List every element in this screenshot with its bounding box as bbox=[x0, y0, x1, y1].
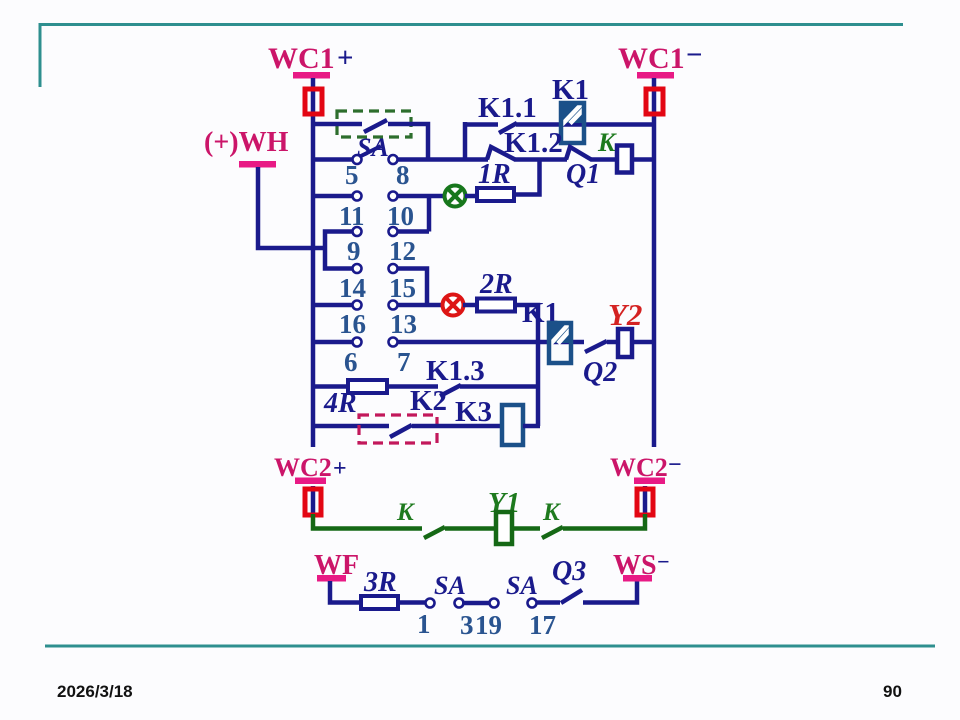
svg-text:6: 6 bbox=[344, 347, 358, 377]
svg-text:K: K bbox=[542, 499, 562, 526]
bracket joining contacts 9 and 14 bbox=[325, 232, 352, 269]
svg-text:−: − bbox=[668, 452, 682, 478]
terminal bar WF bbox=[317, 575, 346, 582]
wire K1.1 to coil K1 bbox=[516, 122, 654, 127]
wire lamp to 1R bbox=[465, 194, 479, 199]
SA contact circles left column pins 5,11,9,14,16,6 bbox=[353, 155, 362, 347]
contact K blade (green left) bbox=[424, 527, 445, 538]
contact K blade (green right) bbox=[542, 527, 563, 538]
svg-text:4R: 4R bbox=[323, 388, 357, 419]
resistor 2R bbox=[477, 299, 515, 312]
switch SA blade row 5-8 bbox=[359, 146, 381, 157]
svg-text:12: 12 bbox=[389, 236, 416, 266]
svg-text:19: 19 bbox=[475, 610, 502, 640]
wire WC2+ into fuse bbox=[311, 486, 316, 516]
contact Q2 blade bbox=[584, 338, 607, 352]
svg-text:1R: 1R bbox=[478, 159, 511, 190]
node WC2+ label bbox=[274, 453, 347, 482]
resistor 1R bbox=[477, 188, 514, 201]
terminal bar WS bbox=[623, 575, 652, 582]
svg-text:17: 17 bbox=[529, 610, 556, 640]
svg-text:1: 1 bbox=[417, 609, 431, 639]
wire row A left bbox=[313, 122, 362, 127]
wire row 12 stub bbox=[397, 229, 429, 234]
dashed enclosure K3 bbox=[359, 415, 437, 443]
terminal bar WC2- bbox=[634, 478, 665, 485]
lamp HL2 (red) bbox=[443, 295, 464, 316]
svg-text:K: K bbox=[597, 128, 617, 157]
wire row 13 to red lamp bbox=[397, 303, 443, 308]
svg-text:Q3: Q3 bbox=[552, 556, 586, 587]
wire green row right bbox=[563, 514, 645, 529]
wire row 6-7 to coil K1 second bbox=[397, 340, 654, 345]
svg-text:15: 15 bbox=[389, 273, 416, 303]
svg-text:SA: SA bbox=[506, 571, 538, 600]
svg-text:11: 11 bbox=[339, 201, 365, 231]
contact circle pin 3 bbox=[455, 599, 464, 608]
svg-text:2R: 2R bbox=[479, 269, 513, 300]
contact circle pin 1 bbox=[426, 599, 435, 608]
wire row 10 to lamp bbox=[397, 194, 445, 199]
wire 1R up to Q1 row bbox=[514, 159, 540, 195]
slide border bottom bbox=[45, 645, 935, 648]
slide border top bbox=[40, 25, 903, 88]
svg-text:90: 90 bbox=[883, 682, 902, 701]
svg-text:WC1: WC1 bbox=[618, 42, 685, 75]
wire coil K3 to feeder bbox=[523, 424, 540, 429]
coil K3 bbox=[502, 405, 523, 445]
svg-text:8: 8 bbox=[396, 160, 410, 190]
SA contact stubs left rows bbox=[313, 160, 352, 343]
switch SA master blade bbox=[364, 120, 387, 132]
svg-text:2026/3/18: 2026/3/18 bbox=[57, 682, 133, 701]
coil K bbox=[617, 146, 632, 173]
svg-text:−: − bbox=[657, 549, 670, 574]
svg-text:Q2: Q2 bbox=[583, 357, 617, 388]
wire right bus bbox=[652, 78, 657, 447]
fuse FU2 bbox=[646, 89, 663, 114]
resistor 3R bbox=[361, 596, 398, 609]
coil K1 second (hatched) bbox=[549, 323, 571, 364]
wire row 15 stub bbox=[397, 269, 427, 306]
svg-text:3R: 3R bbox=[363, 567, 397, 598]
svg-text:5: 5 bbox=[345, 160, 359, 190]
svg-text:16: 16 bbox=[339, 309, 366, 339]
svg-text:K3: K3 bbox=[455, 396, 492, 428]
node WC2- label bbox=[610, 452, 682, 482]
wire 3R to contact 1 bbox=[398, 600, 426, 605]
wire green row left bbox=[313, 514, 422, 529]
wire 3 to 19 bbox=[462, 601, 491, 606]
terminal bar WC1+ bbox=[293, 72, 330, 79]
terminal bar WC1- bbox=[637, 72, 674, 79]
wire WF down bbox=[330, 581, 362, 603]
contact circle pin 17 bbox=[528, 599, 537, 608]
svg-text:14: 14 bbox=[339, 273, 366, 303]
node WC1- label bbox=[618, 39, 703, 75]
wire left bus bbox=[311, 78, 316, 447]
wire lamp to 2R bbox=[463, 303, 479, 308]
wire K1.1 branch bbox=[465, 122, 498, 127]
wire Q3 to WS bbox=[583, 581, 637, 603]
wire coil K to right bus bbox=[633, 157, 654, 162]
svg-text:7: 7 bbox=[397, 347, 411, 377]
wire row K3 left bbox=[313, 424, 389, 429]
fuse FU4 bbox=[637, 489, 653, 515]
contact Q3 blade bbox=[561, 590, 582, 603]
node WS label bbox=[613, 549, 670, 581]
svg-text:WC1: WC1 bbox=[268, 42, 335, 75]
wire row 4R bbox=[313, 384, 438, 389]
svg-text:+: + bbox=[337, 42, 354, 74]
svg-text:SA: SA bbox=[434, 571, 466, 600]
wire to coil Y1 bbox=[445, 526, 497, 531]
svg-text:13: 13 bbox=[390, 309, 417, 339]
svg-text:+: + bbox=[333, 456, 347, 482]
wire K2 to feeder bbox=[460, 384, 540, 389]
coil Y2 bbox=[618, 329, 632, 357]
wire 2R down feeder bbox=[515, 305, 538, 426]
wire junction drop from row A bbox=[463, 122, 468, 160]
switch SA master dashed enclosure bbox=[337, 111, 411, 137]
svg-text:−: − bbox=[686, 39, 703, 71]
lamp HL1 (green) bbox=[445, 186, 466, 207]
svg-text:10: 10 bbox=[387, 201, 414, 231]
wire junction 10-12 bbox=[427, 196, 432, 232]
svg-text:3: 3 bbox=[460, 610, 474, 640]
contact circle pin 19 bbox=[490, 599, 499, 608]
resistor 4R bbox=[348, 380, 387, 393]
fuse FU1 bbox=[305, 89, 322, 114]
contact K2/K1.3 blade bbox=[438, 382, 461, 396]
wire row 5-8 to K1.2 line bbox=[397, 157, 488, 162]
wire row A right bbox=[388, 124, 428, 159]
svg-text:K1.1: K1.1 bbox=[478, 92, 537, 124]
wire coil Y1 to contact bbox=[512, 526, 540, 531]
fuse FU3 bbox=[305, 489, 321, 515]
contact K1.1 blade bbox=[499, 123, 517, 133]
svg-text:K1.2: K1.2 bbox=[504, 127, 563, 159]
terminal bar WC2+ bbox=[295, 478, 326, 485]
contact Q1 blade bbox=[566, 147, 592, 160]
wire K1.2 to Q1 bbox=[514, 157, 567, 162]
wire WC2- into fuse bbox=[643, 486, 648, 516]
coil K1 (hatched) bbox=[561, 103, 584, 144]
coil Y1 bbox=[496, 512, 512, 544]
contact K3 blade bbox=[390, 425, 412, 437]
wire K3 blade to coil bbox=[412, 424, 503, 429]
wire 17 to Q3 bbox=[536, 600, 560, 605]
svg-text:(+)WH: (+)WH bbox=[204, 127, 289, 158]
SA contact circles right column pins 8,10,12,15,13,7 bbox=[389, 155, 398, 347]
svg-text:K: K bbox=[396, 499, 416, 526]
node WC1+ label bbox=[268, 42, 354, 75]
svg-text:Q1: Q1 bbox=[566, 159, 600, 190]
terminal bar WH bbox=[239, 161, 276, 168]
wire WH feed bbox=[258, 167, 325, 248]
svg-text:9: 9 bbox=[347, 236, 361, 266]
contact K1.2 blade bbox=[487, 147, 515, 160]
wire Q1 to coil K bbox=[591, 157, 620, 162]
